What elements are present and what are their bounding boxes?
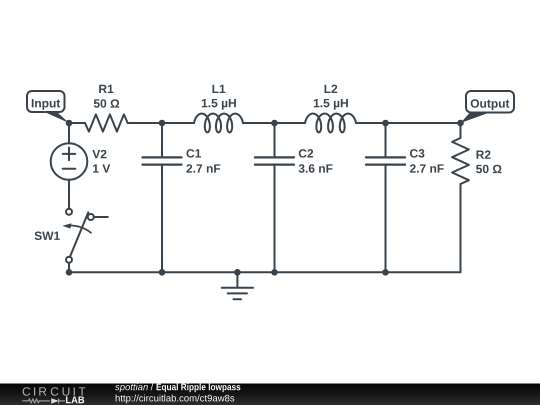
label L2: [325, 85, 338, 93]
node label Output box: [466, 91, 514, 113]
input pointer triangle: [45, 112, 70, 123]
wire L1 to L2: [243, 122, 305, 124]
label R1: [99, 85, 113, 93]
footer author spottian: [115, 383, 148, 392]
footer url: [116, 394, 235, 403]
wire C1 column top: [161, 123, 163, 156]
wire R2 to bottom rail: [460, 184, 462, 272]
value L1 1.5 uH: [202, 99, 236, 110]
resistor R1: [85, 114, 128, 131]
wire C3 column top: [385, 123, 387, 156]
node label Input box: [27, 91, 65, 112]
node dot input: [66, 120, 73, 127]
footer bar: [0, 384, 540, 405]
wire R1 to L1: [128, 122, 194, 124]
switch SW1 blade: [70, 212, 88, 257]
label C1: [186, 149, 201, 158]
inductor L1: [194, 114, 243, 133]
wire L2 to output node: [356, 122, 461, 124]
V2 plus sign: [63, 148, 76, 161]
ground symbol: [222, 288, 253, 299]
node dot C1 top: [159, 120, 166, 127]
capacitor C3 plates: [366, 157, 405, 164]
switch SW1 rotation arc: [67, 226, 92, 233]
node dot C2 bottom: [271, 269, 278, 276]
wire output node to R2: [460, 123, 462, 138]
logo LAB text: [66, 396, 84, 403]
label R2: [477, 150, 491, 158]
value C2 3.6 nF: [299, 164, 333, 173]
label C2: [299, 149, 313, 158]
value C3 2.7 nF: [410, 164, 444, 172]
inductor L2: [305, 114, 356, 133]
logo resistor squiggle: [22, 399, 49, 403]
wire C1 column bottom: [161, 166, 163, 273]
logo diode triangle: [52, 399, 58, 403]
node dot switch bottom: [66, 269, 73, 276]
logo CIRCUIT text: [23, 387, 86, 396]
capacitor C2 plates: [255, 157, 294, 164]
wire V2 to switch SW1: [68, 180, 70, 209]
label SW1: [35, 232, 60, 241]
ground stub wire: [236, 272, 238, 287]
node dot ground: [234, 269, 241, 276]
wire C2 column top: [274, 123, 276, 156]
value L2 1.5 uH: [314, 99, 348, 110]
wire switch to bottom rail: [68, 263, 70, 273]
value R2 50 Ohm: [476, 165, 501, 174]
switch SW1 top terminal circle: [66, 209, 72, 215]
footer title Equal Ripple lowpass: [157, 383, 241, 392]
wire bottom rail: [69, 271, 461, 273]
wire input node to V2: [68, 123, 70, 143]
voltage source V2 circle: [51, 143, 88, 180]
value C1 2.7 nF: [186, 164, 220, 172]
wire top rail input node to R1: [69, 122, 85, 124]
node dot C2 top: [271, 120, 278, 127]
switch SW1 right terminal circle: [88, 214, 94, 220]
value V2 1 V: [93, 164, 110, 172]
V2 minus sign: [63, 168, 76, 170]
node dot C1 bottom: [159, 269, 166, 276]
output pointer triangle: [461, 113, 490, 124]
footer slash: [151, 383, 154, 390]
switch SW1 bottom terminal circle: [66, 257, 72, 263]
switch SW1 arc arrowhead: [62, 223, 71, 228]
logo diode bar and lead: [59, 398, 65, 403]
wire C2 column bottom: [274, 166, 276, 273]
label L1: [212, 85, 225, 93]
capacitor C1 plates: [143, 157, 182, 164]
node dot C3 bottom: [382, 269, 389, 276]
value R1 50 Ohm: [94, 99, 119, 108]
switch SW1 right terminal stub wire: [94, 216, 108, 218]
resistor R2: [452, 138, 469, 184]
node dot output: [457, 120, 464, 127]
wire C3 column bottom: [385, 166, 387, 273]
node dot C3 top: [382, 120, 389, 127]
label C3: [410, 149, 424, 158]
label V2: [92, 150, 106, 158]
node label Input text: [32, 99, 60, 110]
node label Output text: [471, 99, 510, 110]
